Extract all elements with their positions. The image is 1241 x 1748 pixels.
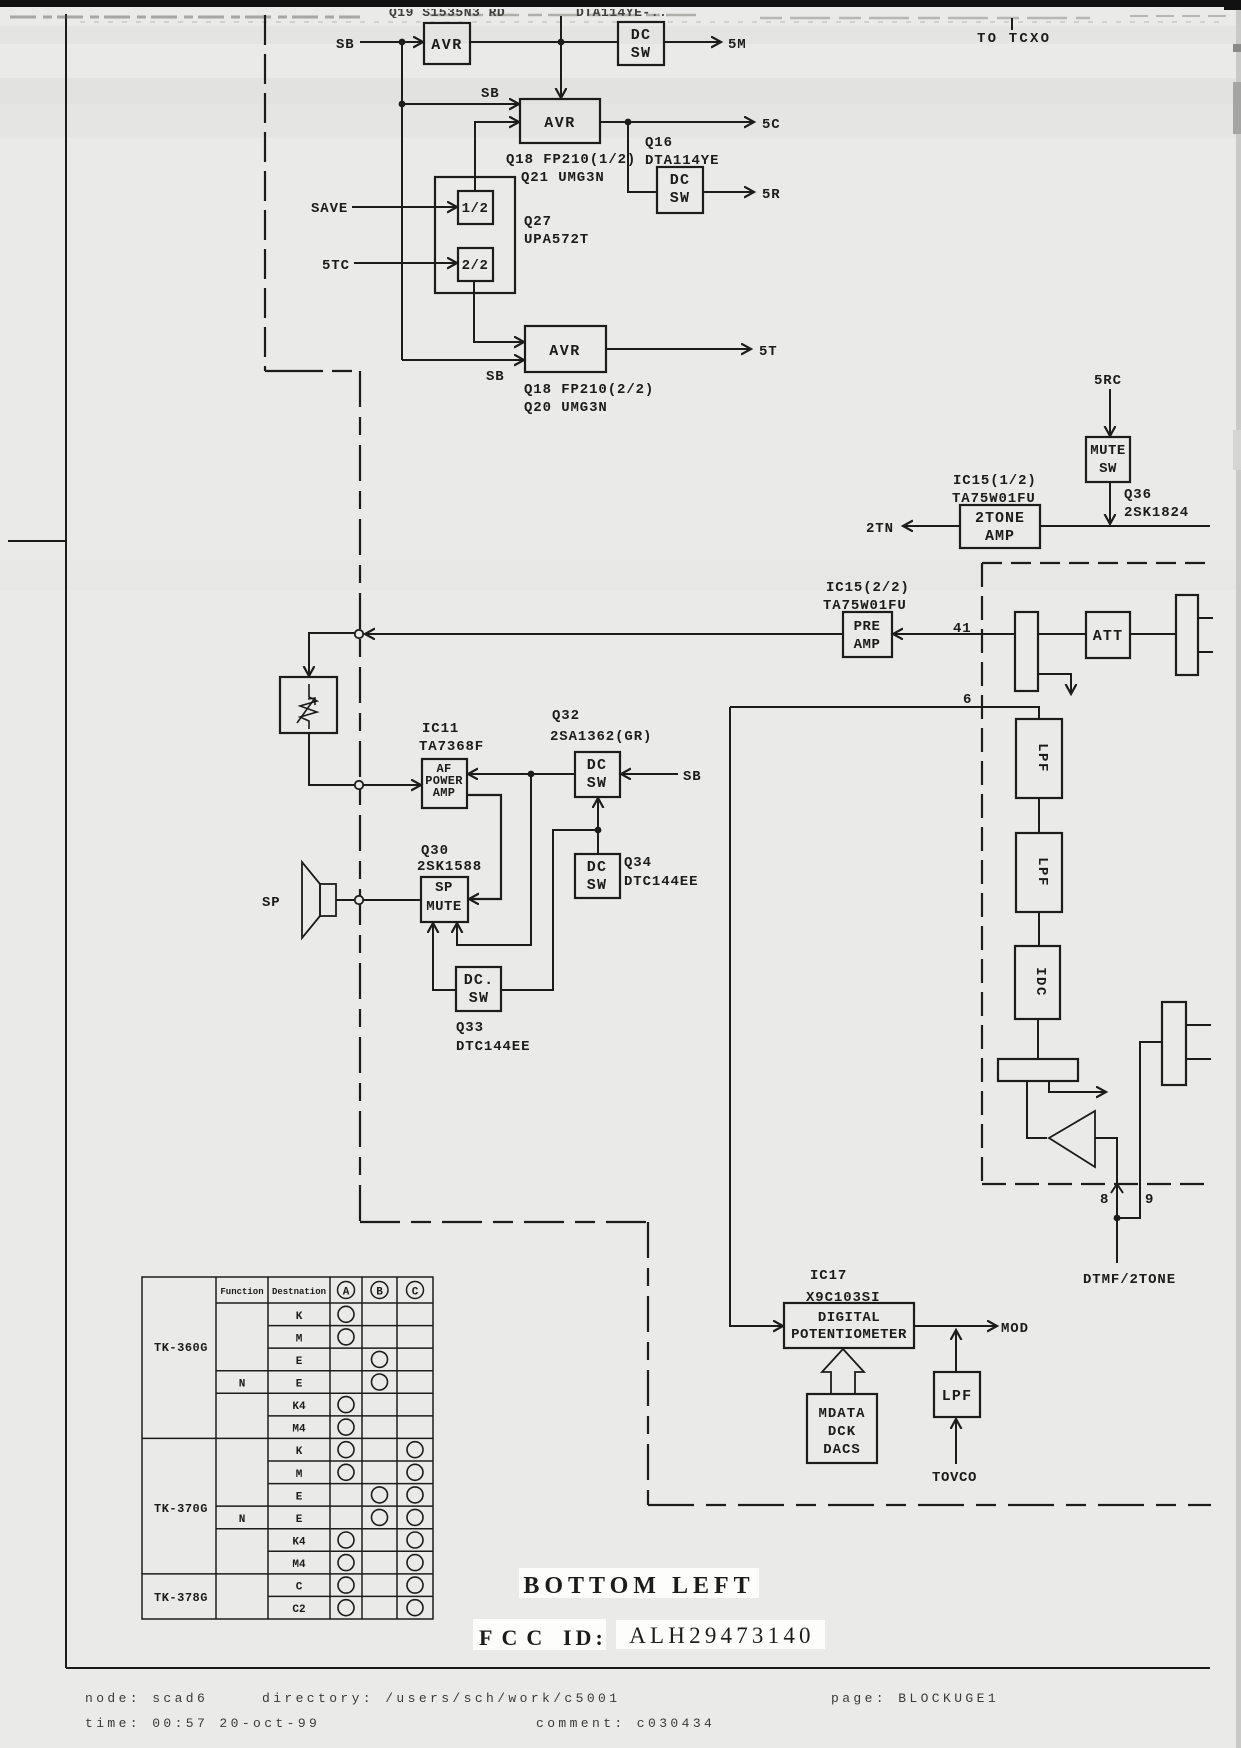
svg-text:SP: SP	[262, 895, 281, 911]
svg-text:TO TCXO: TO TCXO	[977, 31, 1051, 47]
dashed boundary (main vertical)	[359, 371, 361, 1222]
svg-text:C: C	[296, 1582, 303, 1594]
block DC SW Q34	[575, 854, 620, 898]
block DC SW 5M	[618, 22, 664, 65]
wire AVR2 out to 5C	[600, 121, 754, 123]
svg-text:SB: SB	[683, 769, 702, 785]
wire 5TC input	[354, 262, 457, 264]
svg-text:SB: SB	[336, 37, 355, 53]
wire summing bar to amplifier	[1027, 1081, 1047, 1138]
svg-text:POTENTIOMETER: POTENTIOMETER	[791, 1327, 907, 1343]
svg-text:5T: 5T	[759, 344, 778, 360]
svg-text:Destnation: Destnation	[272, 1287, 326, 1297]
hollow bus arrow MDATA to potentiometer	[822, 1349, 864, 1394]
connector lower right	[1162, 1002, 1186, 1085]
variable resistor zigzag symbol	[300, 684, 317, 729]
dashed boundary bottom horizontal	[648, 1504, 1211, 1506]
svg-text:TOVCO: TOVCO	[932, 1470, 977, 1486]
svg-text:TA75W01FU: TA75W01FU	[952, 491, 1036, 507]
scan noise line	[80, 21, 1220, 23]
svg-text:MUTE: MUTE	[426, 899, 462, 915]
wire connector stub with down arrow	[1038, 674, 1071, 694]
dashed boundary bottom-left horizontal	[360, 1221, 648, 1223]
svg-text:node: scad6: node: scad6	[85, 1691, 208, 1706]
block LPF 1	[1016, 719, 1062, 798]
wire connector to ATT	[1038, 633, 1086, 635]
svg-text:N: N	[239, 1379, 246, 1391]
svg-text:Q18 FP210(2/2): Q18 FP210(2/2)	[524, 382, 654, 398]
svg-text:Q20 UMG3N: Q20 UMG3N	[524, 400, 608, 416]
svg-text:E: E	[296, 1379, 303, 1391]
svg-text:AMP: AMP	[854, 637, 881, 653]
svg-text:AVR: AVR	[431, 37, 463, 54]
svg-text:DC: DC	[670, 172, 690, 189]
svg-text:Q36: Q36	[1124, 487, 1152, 503]
svg-text:TK-378G: TK-378G	[154, 1591, 208, 1605]
wire from 2/2 down into AVR3 input 1	[474, 281, 524, 342]
junction DTMF split	[1114, 1215, 1121, 1222]
svg-text:DTC144EE: DTC144EE	[624, 874, 698, 890]
cut-off label above AVR (Q19)	[389, 5, 505, 20]
svg-text:DC: DC	[587, 859, 607, 876]
wire SB rail into AVR2 input 1	[402, 103, 519, 105]
svg-text:DACS: DACS	[823, 1442, 861, 1458]
svg-text:B: B	[376, 1287, 383, 1299]
svg-text:LPF: LPF	[1034, 857, 1050, 887]
wire DC SW Q32 to AF amp (arrow left)	[468, 773, 575, 775]
table header circled B	[371, 1282, 388, 1299]
svg-text:Q27: Q27	[524, 214, 552, 230]
wire 2TN line left with arrow	[903, 525, 960, 527]
stamp FCC ID	[473, 1619, 606, 1650]
wire MUTE SW down to 2TN line	[1109, 482, 1111, 524]
left margin tick wire	[8, 540, 66, 542]
svg-text:IDC: IDC	[1032, 967, 1048, 997]
svg-text:LPF: LPF	[1034, 743, 1050, 773]
block 2TONE AMP	[960, 505, 1040, 548]
table header circled C	[407, 1282, 424, 1299]
table header circled A	[338, 1282, 355, 1299]
wire junction down to SP MUTE arrow 2	[457, 774, 531, 945]
wire stub up (cut at page top)	[560, 16, 562, 42]
block Q27 outer	[435, 177, 515, 293]
svg-text:MUTE: MUTE	[1090, 443, 1126, 459]
dashed boundary (left upper vertical)	[264, 15, 266, 371]
top scan black band	[0, 0, 1241, 7]
svg-text:DIGITAL: DIGITAL	[818, 1310, 880, 1326]
svg-text:5RC: 5RC	[1094, 373, 1122, 389]
svg-text:E: E	[296, 1514, 303, 1526]
stamp FCC ID number	[616, 1620, 825, 1649]
svg-text:SB: SB	[481, 86, 500, 102]
svg-text:2SK1588: 2SK1588	[417, 859, 482, 875]
svg-text:ALH29473140: ALH29473140	[629, 1623, 814, 1648]
svg-text:IC17: IC17	[810, 1268, 847, 1284]
block PRE AMP	[843, 612, 892, 657]
svg-text:Q30: Q30	[421, 843, 449, 859]
svg-text:DCK: DCK	[828, 1424, 856, 1440]
connector 41	[1015, 612, 1038, 691]
block LPF 3	[934, 1372, 980, 1417]
block digital potentiometer	[784, 1303, 914, 1348]
connector lower stub 1	[1186, 1024, 1211, 1026]
pin 8 up arrowhead	[1111, 1184, 1123, 1193]
svg-text:K4: K4	[292, 1537, 306, 1549]
dashed TX box top edge	[982, 562, 1213, 564]
svg-text:UPA572T: UPA572T	[524, 232, 589, 248]
block 1/2	[458, 191, 493, 224]
svg-text:M4: M4	[292, 1424, 306, 1436]
junction AVR out	[558, 39, 565, 46]
wire resistor down to node	[309, 733, 354, 785]
svg-text:time: 00:57 20-oct-99: time: 00:57 20-oct-99	[85, 1716, 320, 1731]
wire node to SP MUTE	[363, 899, 421, 901]
wire SB into Q32	[621, 773, 678, 775]
svg-text:AVR: AVR	[544, 115, 576, 132]
model option table	[142, 1277, 433, 1619]
svg-text:ID:: ID:	[563, 1625, 607, 1650]
svg-text:AMP: AMP	[433, 786, 456, 800]
svg-text:Q16: Q16	[645, 135, 673, 151]
junction SB rail row2	[399, 101, 406, 108]
block ATT	[1086, 612, 1130, 658]
wire branch down to DC SW 5R	[628, 122, 657, 192]
svg-text:DC: DC	[587, 757, 607, 774]
wire LPF1 to LPF2	[1038, 798, 1040, 833]
wire SAVE input	[352, 206, 457, 208]
svg-text:E: E	[296, 1356, 303, 1368]
svg-text:AMP: AMP	[985, 528, 1015, 545]
svg-text:2TONE: 2TONE	[975, 510, 1025, 527]
wire DC SW to 5M	[664, 41, 721, 43]
svg-text:MDATA: MDATA	[818, 1406, 865, 1422]
svg-text:Q32: Q32	[552, 708, 580, 724]
svg-text:M4: M4	[292, 1559, 306, 1571]
dashed TX box left edge	[981, 563, 983, 1184]
svg-text:DTC144EE: DTC144EE	[456, 1039, 530, 1055]
svg-text:K: K	[296, 1311, 303, 1323]
svg-text:2TN: 2TN	[866, 521, 894, 537]
block IDC	[1015, 946, 1060, 1019]
wire junction down into AVR 2	[560, 42, 562, 98]
wire PRE AMP left long run	[365, 633, 843, 635]
node SB input wire	[360, 41, 423, 43]
svg-text:comment: c030434: comment: c030434	[536, 1716, 715, 1731]
junction on SB rail	[399, 39, 406, 46]
svg-text:DTMF/2TONE: DTMF/2TONE	[1083, 1272, 1176, 1288]
page border bottom line	[66, 1667, 1210, 1669]
block 2/2	[458, 248, 493, 281]
wire connector to PRE AMP (arrow left)	[893, 633, 1015, 635]
svg-text:K: K	[296, 1446, 303, 1458]
wire 5RC input down	[1109, 389, 1111, 436]
svg-text:SP: SP	[435, 880, 453, 896]
svg-text:SAVE: SAVE	[311, 201, 348, 217]
svg-text:SB: SB	[486, 369, 505, 385]
node open circle on dashed line (to AF amp)	[355, 781, 363, 789]
svg-text:2/2: 2/2	[462, 258, 489, 274]
svg-text:2SA1362(GR): 2SA1362(GR)	[550, 729, 652, 745]
wire speaker to node	[336, 899, 354, 901]
block AVR 3	[525, 326, 606, 372]
wire AVR3 out to 5T	[606, 348, 751, 350]
svg-text:AVR: AVR	[549, 343, 581, 360]
wire ATT to right connector	[1130, 633, 1176, 635]
svg-text:SW: SW	[670, 190, 690, 207]
amplifier triangle	[1049, 1111, 1095, 1167]
svg-text:K4: K4	[292, 1401, 306, 1413]
svg-text:directory: /users/sch/work/c50: directory: /users/sch/work/c5001	[262, 1691, 620, 1706]
wire Q33 left up into SP MUTE arrow 1	[433, 923, 456, 990]
svg-text:5M: 5M	[728, 37, 747, 53]
wire node to AF amp input	[363, 784, 421, 786]
dashed boundary jog horizontal	[265, 370, 360, 372]
svg-text:M: M	[296, 1333, 303, 1345]
wire 6 line from feedback riser to LPF	[730, 707, 1039, 719]
block SP MUTE	[421, 877, 468, 922]
svg-text:IC11: IC11	[422, 721, 459, 737]
svg-text:PRE: PRE	[854, 619, 881, 635]
svg-text:5C: 5C	[762, 117, 781, 133]
svg-text:6: 6	[963, 692, 972, 708]
svg-text:C2: C2	[292, 1604, 305, 1616]
svg-text:E: E	[296, 1491, 303, 1503]
wire feedback riser down to digital potentiometer	[730, 707, 783, 1326]
svg-text:page: BLOCKUGE1: page: BLOCKUGE1	[831, 1691, 999, 1706]
svg-text:IC15(2/2): IC15(2/2)	[826, 580, 910, 596]
block AVR 2	[520, 99, 600, 143]
svg-text:C: C	[412, 1287, 419, 1299]
stamp BOTTOM LEFT	[519, 1568, 759, 1598]
svg-text:SW: SW	[469, 990, 489, 1007]
svg-text:TA7368F: TA7368F	[419, 739, 484, 755]
svg-text:5R: 5R	[762, 187, 781, 203]
wire DTMF/2TONE input	[1116, 1218, 1118, 1263]
connector right stub 1	[1198, 617, 1213, 619]
block DC SW 5R	[657, 167, 703, 213]
junction on AF input wire	[528, 771, 535, 778]
svg-text:N: N	[239, 1514, 246, 1526]
connector right stub 2	[1198, 651, 1213, 653]
svg-text:Function: Function	[220, 1287, 263, 1297]
junction Q34-Q32 line	[595, 827, 602, 834]
svg-text:TK-370G: TK-370G	[154, 1502, 208, 1516]
wire AVR out to DC SW	[470, 41, 618, 43]
wire LPF3 up into MOD line	[955, 1330, 957, 1372]
cut-off label above DC SW (DTA114YE)	[576, 5, 667, 20]
svg-text:TK-360G: TK-360G	[154, 1341, 208, 1355]
wire Q34 up into Q32	[597, 798, 599, 854]
node open circle on dashed line (speaker)	[355, 896, 363, 904]
speaker symbol	[320, 884, 336, 916]
svg-text:LPF: LPF	[942, 1388, 973, 1405]
svg-text:DC.: DC.	[464, 972, 495, 989]
svg-text:IC15(1/2): IC15(1/2)	[953, 473, 1037, 489]
svg-text:41: 41	[953, 621, 972, 637]
wire pin 9 riser to connector	[1117, 1042, 1162, 1218]
wire Q33 riser to junction	[501, 830, 598, 990]
wire 2TN line right segment	[1040, 525, 1210, 527]
wire DC SW to 5R	[703, 191, 754, 193]
svg-text:BOTTOM LEFT: BOTTOM LEFT	[523, 1573, 754, 1599]
svg-text:5TC: 5TC	[322, 258, 350, 274]
svg-text:MOD: MOD	[1001, 1321, 1029, 1337]
wire AF amp out loop to SP MUTE	[467, 795, 501, 899]
svg-text:Q21 UMG3N: Q21 UMG3N	[521, 170, 605, 186]
wire TOVCO up into LPF3	[955, 1419, 957, 1464]
connector lower stub 2	[1186, 1058, 1211, 1060]
wire LPF2 to IDC	[1038, 912, 1040, 946]
variable resistor	[280, 677, 337, 733]
svg-text:A: A	[343, 1287, 350, 1299]
svg-text:SW: SW	[587, 775, 607, 792]
block AF POWER AMP	[422, 759, 467, 808]
svg-text:1/2: 1/2	[462, 201, 489, 217]
wire IDC down to summing bar	[1037, 1019, 1039, 1059]
wire SB rail into AVR3 input 2	[402, 359, 524, 361]
dashed TX box bottom edge	[982, 1183, 1212, 1185]
block AVR (top)	[424, 23, 470, 64]
block DC SW Q32	[575, 752, 620, 797]
svg-text:9: 9	[1145, 1192, 1154, 1208]
svg-text:Q34: Q34	[624, 855, 652, 871]
svg-text:Q18 FP210(1/2): Q18 FP210(1/2)	[506, 152, 636, 168]
summing bar	[998, 1059, 1078, 1081]
node open circle on dashed line (AF line)	[355, 630, 363, 638]
right scan edge marks	[1236, 10, 1241, 1748]
wire summing bar right arrow stub	[1049, 1081, 1106, 1092]
svg-text:8: 8	[1100, 1192, 1109, 1208]
svg-text:2SK1824: 2SK1824	[1124, 505, 1189, 521]
wire to volume resistor	[309, 633, 355, 676]
svg-text:FCC: FCC	[479, 1625, 551, 1650]
wire amplifier out down through pin 8	[1095, 1138, 1117, 1218]
label TO TCXO	[1011, 18, 1013, 30]
dashed boundary lower vertical	[647, 1222, 649, 1505]
svg-text:SW: SW	[587, 877, 607, 894]
wire potentiometer out to MOD	[914, 1325, 997, 1327]
svg-text:ATT: ATT	[1093, 628, 1124, 645]
block DC SW Q33	[456, 967, 501, 1011]
block LPF 2	[1016, 833, 1062, 912]
junction AVR2 out	[625, 119, 632, 126]
svg-text:SW: SW	[1099, 461, 1117, 477]
svg-text:DC: DC	[631, 27, 651, 44]
svg-text:SW: SW	[631, 45, 651, 62]
connector right	[1176, 595, 1198, 675]
block MUTE SW	[1086, 437, 1130, 482]
svg-text:M: M	[296, 1469, 303, 1481]
block MDATA	[807, 1394, 877, 1463]
svg-text:Q33: Q33	[456, 1020, 484, 1036]
SB rail vertical	[401, 42, 403, 360]
wire from 1/2 up into AVR2 input 2	[475, 122, 519, 191]
page border left line	[65, 14, 67, 1668]
